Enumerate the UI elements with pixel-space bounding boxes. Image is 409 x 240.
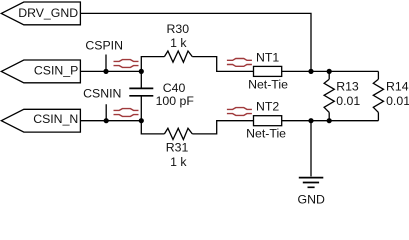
svg-text:NT2: NT2 bbox=[256, 99, 279, 113]
svg-text:0.01: 0.01 bbox=[386, 94, 409, 108]
svg-text:1 k: 1 k bbox=[170, 36, 187, 50]
svg-text:GND: GND bbox=[298, 193, 325, 207]
svg-text:CSIN_N: CSIN_N bbox=[33, 112, 78, 126]
svg-text:CSNIN: CSNIN bbox=[83, 86, 121, 100]
svg-text:Net-Tie: Net-Tie bbox=[246, 127, 286, 141]
svg-text:1 k: 1 k bbox=[170, 155, 187, 169]
svg-text:DRV_GND: DRV_GND bbox=[18, 6, 78, 20]
svg-text:CSPIN: CSPIN bbox=[85, 39, 123, 53]
svg-text:R13: R13 bbox=[336, 79, 359, 93]
svg-text:C40: C40 bbox=[163, 81, 186, 95]
svg-text:Net-Tie: Net-Tie bbox=[248, 78, 288, 92]
svg-text:NT1: NT1 bbox=[256, 50, 279, 64]
svg-text:CSIN_P: CSIN_P bbox=[34, 63, 78, 77]
svg-text:R31: R31 bbox=[166, 141, 189, 155]
svg-text:0.01: 0.01 bbox=[336, 94, 360, 108]
svg-text:R30: R30 bbox=[167, 22, 190, 36]
svg-text:R14: R14 bbox=[386, 79, 409, 93]
svg-text:100 pF: 100 pF bbox=[156, 94, 195, 108]
